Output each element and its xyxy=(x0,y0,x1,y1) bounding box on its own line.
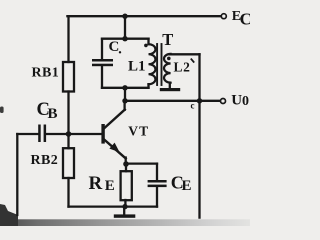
wire: RB2 bottom down to emitter bottom rail xyxy=(67,178,69,207)
resistor RE xyxy=(121,171,132,200)
svg-text:T: T xyxy=(162,30,173,49)
wire: ground stub below RE xyxy=(123,207,125,215)
wire: tank top side xyxy=(102,38,149,40)
wire: feed from rail to tank top xyxy=(124,16,126,39)
junction dot U0 tap xyxy=(197,98,202,103)
capacitor C plate 1 (tank) xyxy=(92,59,113,62)
wire: emitter vertical xyxy=(125,158,127,165)
wire: emitter junction to CE top xyxy=(126,162,157,164)
wire: collector node horizontal to U0 xyxy=(125,100,220,102)
capacitor CB plate 2 xyxy=(44,125,47,143)
svg-text:L1: L1 xyxy=(128,59,146,75)
wire: CE bottom vertical xyxy=(156,187,158,207)
transistor VT base bar xyxy=(101,124,104,144)
capacitor CB plate 1 xyxy=(38,125,41,143)
transistor VT collector diagonal xyxy=(104,110,125,129)
junction dot bottom rail at RE xyxy=(122,204,127,209)
wire: right vertical down from L2 top corner xyxy=(198,54,200,217)
svg-text:RB1: RB1 xyxy=(32,65,60,80)
bottom scan shadow band xyxy=(0,219,250,226)
svg-text:U: U xyxy=(231,93,242,109)
junction dot collector node xyxy=(122,98,127,103)
wire: collector vertical xyxy=(123,101,125,110)
left edge scan mark xyxy=(0,107,4,114)
wire: tank left branch lower xyxy=(101,66,103,88)
terminal circle U0 xyxy=(221,99,226,104)
wire: tank bottom side xyxy=(102,87,149,89)
wire: base wire from bias junction xyxy=(69,133,102,135)
inductor L1 top stub xyxy=(147,39,149,45)
capacitor C plate 2 (tank) xyxy=(92,64,113,66)
junction dot tank bottom xyxy=(122,85,127,90)
wire: RE top stub xyxy=(125,164,127,171)
wire: left vertical from CB down to bottom xyxy=(16,134,18,215)
capacitor CB right wire xyxy=(46,133,68,135)
inductor L1 bottom stub xyxy=(147,84,149,88)
capacitor CE plate 2 xyxy=(148,185,167,188)
junction dot base bias xyxy=(66,131,72,137)
wire: RB1 bottom to bias junction to RB2 top xyxy=(67,92,69,149)
svg-text:C: C xyxy=(240,10,250,29)
svg-text:L2: L2 xyxy=(174,60,191,75)
polarity dot L1 xyxy=(144,44,148,48)
junction dot tank top xyxy=(122,36,127,41)
resistor RB2 xyxy=(63,148,74,178)
transistor VT emitter arrowhead xyxy=(109,143,119,153)
capacitor CE plate 1 xyxy=(148,180,167,183)
inductor L2 coil xyxy=(164,54,171,83)
tick mark near L2 top xyxy=(191,59,194,63)
svg-text:VT: VT xyxy=(128,123,149,138)
wire: RE bottom stub xyxy=(124,200,126,207)
svg-text:c: c xyxy=(191,101,195,111)
wire: L2 top to right vertical xyxy=(170,53,200,55)
ground below L2 xyxy=(160,88,180,91)
terminal circle EC xyxy=(221,14,226,19)
wire: top EC rail xyxy=(67,15,221,17)
wire: tank left branch upper xyxy=(101,39,103,60)
svg-text:RB2: RB2 xyxy=(31,153,59,168)
wire: rail corner down to RB1 top xyxy=(67,16,69,62)
transformer core line 2 xyxy=(161,44,163,85)
svg-text:0: 0 xyxy=(242,94,249,109)
svg-text:E: E xyxy=(182,178,192,194)
capacitor CB left wire xyxy=(17,133,38,135)
ground below RE xyxy=(114,214,136,217)
svg-text:R: R xyxy=(89,173,103,194)
wire: bottom rail RB2 to CE xyxy=(69,205,158,207)
svg-text:C: C xyxy=(109,39,120,55)
svg-text:B: B xyxy=(48,106,58,122)
wire: L2 bottom stub to ground xyxy=(169,83,171,89)
junction dot on EC rail xyxy=(122,14,127,19)
polarity dot L2 xyxy=(167,57,171,61)
wire: tank bottom down to collector node xyxy=(124,88,126,101)
transformer core line 1 xyxy=(156,44,158,85)
wire: CE top vertical xyxy=(156,164,158,181)
junction dot emitter xyxy=(123,161,129,167)
resistor RB1 xyxy=(63,62,74,92)
inductor L1 coil xyxy=(149,44,156,84)
transistor VT emitter diagonal xyxy=(104,139,126,158)
svg-text:E: E xyxy=(105,178,115,194)
bottom-left dark blob xyxy=(0,204,18,226)
